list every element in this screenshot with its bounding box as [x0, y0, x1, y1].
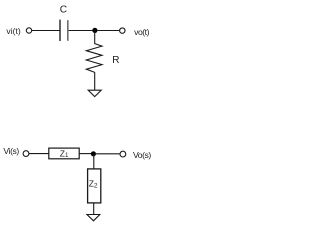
wire input to Z1: [29, 153, 48, 155]
svg-text:Vo(s): Vo(s): [133, 150, 151, 160]
impedance Z1 box: [49, 148, 79, 159]
wire resistor to ground: [94, 72, 96, 90]
node junction dot (bottom): [91, 151, 96, 156]
ground (top): [88, 90, 101, 96]
wire Z1 to node: [79, 153, 92, 155]
ground (bottom): [87, 215, 100, 221]
wire node to output: [95, 153, 120, 155]
svg-text:vo(t): vo(t): [134, 27, 150, 37]
input terminal (top): [26, 28, 31, 33]
capacitor C left plate: [59, 20, 61, 41]
wire input to capacitor: [32, 30, 60, 32]
input terminal (bottom): [23, 151, 29, 157]
wire node down to resistor: [94, 31, 96, 45]
impedance Z2 box: [88, 169, 101, 203]
wire Z2 to ground: [93, 203, 95, 215]
svg-text:R: R: [112, 55, 119, 66]
svg-text:Vi(s): Vi(s): [3, 146, 19, 156]
wire capacitor to node: [69, 30, 93, 32]
output terminal (bottom): [120, 151, 126, 157]
svg-text:C: C: [60, 5, 67, 16]
wire node down to Z2: [93, 154, 95, 169]
output terminal (top): [120, 28, 125, 33]
node junction dot (top): [92, 28, 97, 33]
svg-text:vi(t): vi(t): [6, 26, 20, 36]
capacitor C right plate: [67, 20, 69, 41]
resistor R zigzag: [86, 44, 102, 73]
wire node to output: [97, 30, 120, 32]
